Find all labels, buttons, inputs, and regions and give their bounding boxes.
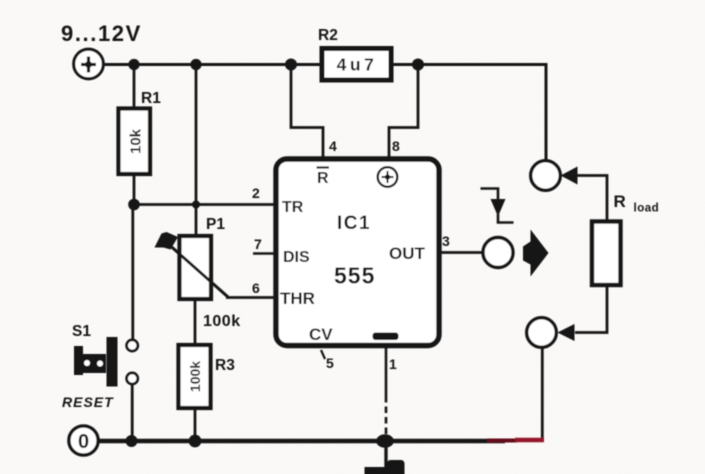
svg-text:R: R [317,170,329,187]
symbol falling-edge pulse [481,189,514,223]
node OUT terminal circle [483,238,513,268]
wire pin 4 elbow [291,65,323,160]
symbol fat output arrow [523,230,549,277]
potentiometer P1 [155,232,229,299]
label P1 [206,216,225,233]
wire ground rail [98,439,506,443]
junction R2 left / pin4 [285,59,297,71]
junction R1 bottom / TR node [128,199,140,211]
svg-text:R2: R2 [318,27,338,44]
label R3 [215,357,235,374]
svg-text:9...12V: 9...12V [61,21,142,46]
svg-text:100k: 100k [203,313,241,330]
pin number 1 [389,356,397,372]
label R-bar (reset pin) [317,168,330,188]
wire top-right terminal to R load top [578,176,608,222]
svg-text:R3: R3 [215,357,235,374]
label RESET [62,394,114,410]
svg-text:100k: 100k [187,361,203,392]
symbol circled plus (Vcc pin 8) [378,167,398,187]
pin 7 stub [253,252,277,255]
svg-text:8: 8 [392,138,400,154]
wire R3 bottom lead [194,408,197,441]
junction TR crossing [192,201,200,209]
arrowhead into top-right terminal [561,167,578,185]
pin number 7 [254,236,262,252]
wire IC pin 1 to ground rail [385,347,388,441]
svg-text:7: 7 [254,236,262,252]
label 555 [334,263,375,289]
svg-text:5: 5 [326,355,334,371]
resistor R3 [179,345,211,408]
pin number 6 [252,280,260,296]
wire bottom-right terminal down to ground rail [541,348,544,442]
IC U1 body (555) [276,159,439,346]
wire switch to ground rail [131,385,134,441]
label 9...12V supply [61,21,142,46]
label THR [280,289,315,308]
resistor R1 [119,109,151,175]
arrowhead into bottom-right terminal [558,324,575,341]
label R2 [318,27,338,44]
wire TR line to pin 2 [134,203,277,206]
ground symbol [365,441,405,474]
svg-text:6: 6 [252,280,260,296]
svg-text:0: 0 [78,431,89,453]
svg-text:10k: 10k [127,128,144,154]
svg-text:load: load [634,203,660,215]
junction ground rail / pin1 [376,434,394,448]
pin number 3 [442,233,450,249]
pin number 8 [392,138,400,154]
wire pin 8 elbow [389,65,418,160]
junction R2 right / pin8 [412,59,424,71]
svg-text:IC1: IC1 [337,213,371,234]
wire TR node down to switch [131,205,134,341]
svg-text:555: 555 [334,263,375,289]
svg-text:OUT: OUT [389,244,426,263]
terminal +V [74,49,104,79]
junction R1 top [128,59,139,70]
node bottom-right terminal circle [527,318,557,348]
resistor R2 [322,49,391,81]
label R load [614,192,660,215]
junction P1 top [190,59,201,70]
wire ground rail red segment [487,438,544,443]
label S1 [72,323,91,340]
svg-text:3: 3 [442,233,450,249]
wire THR line (wiper to pin 6) [226,296,277,299]
resistor Rload [592,222,621,286]
wire R1 top lead [133,65,136,109]
wire R load bottom to bottom-right terminal [575,287,607,333]
wire top supply rail [105,63,323,66]
svg-text:4u7: 4u7 [337,55,378,75]
svg-text:R1: R1 [141,90,161,107]
value label 100k (P1) [203,313,241,330]
node output terminal top-right circle [531,161,561,191]
label CV [309,325,333,344]
svg-text:DIS: DIS [283,249,310,266]
label DIS [283,249,310,266]
pin number 2 [252,185,260,201]
label R1 [141,90,161,107]
wire OUT pin 3 [440,251,483,254]
pin number 5 [326,355,334,371]
label OUT [389,244,426,263]
wire supply to P1 top [195,65,198,237]
wire R1 bottom lead [133,175,136,205]
svg-text:1: 1 [389,356,397,372]
svg-text:RESET: RESET [62,394,114,410]
svg-text:4: 4 [329,138,337,154]
junction ground rail / R3 [189,435,202,448]
svg-text:2: 2 [252,185,260,201]
svg-text:R: R [614,192,626,211]
pin 5 tick [321,350,325,359]
switch S1 (pushbutton) [74,337,138,387]
pin number 4 [329,138,337,154]
label IC1 [337,213,371,234]
terminal 0V [69,426,98,455]
wire P1 to R3 [194,299,197,345]
junction ground rail / switch [126,435,138,447]
wire R2 right to top-right corner [391,65,546,162]
svg-text:THR: THR [280,289,315,308]
svg-text:TR: TR [282,199,304,216]
svg-text:CV: CV [309,325,333,344]
svg-text:S1: S1 [72,323,91,340]
label TR [282,199,304,216]
svg-text:P1: P1 [206,216,225,233]
pin 1 internal marker [373,333,399,341]
